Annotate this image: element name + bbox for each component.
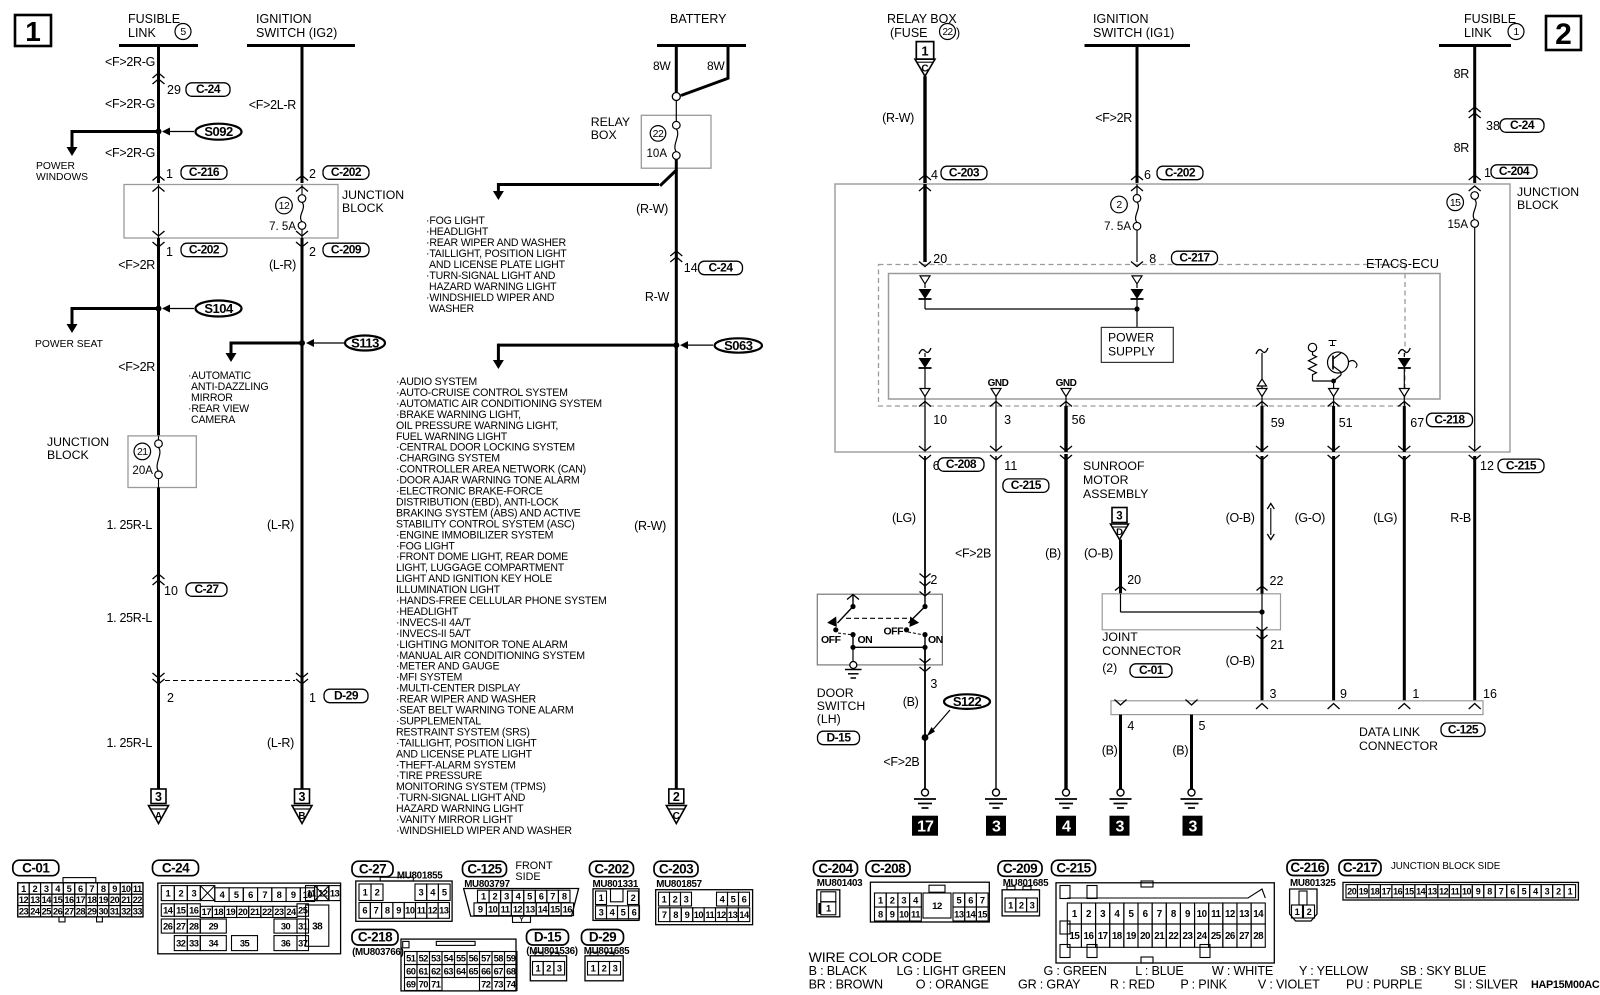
svg-text:11: 11 bbox=[417, 906, 426, 916]
svg-text:<F>2L-R: <F>2L-R bbox=[249, 98, 297, 112]
svg-text:1: 1 bbox=[166, 245, 173, 259]
junction block box (lower) bbox=[128, 436, 196, 488]
svg-text:22: 22 bbox=[1168, 931, 1179, 942]
svg-text:12: 12 bbox=[1439, 886, 1449, 896]
svg-text:POWER SEAT: POWER SEAT bbox=[35, 339, 104, 350]
svg-text:31: 31 bbox=[110, 907, 120, 917]
connector C-217 header bbox=[1339, 860, 1381, 876]
svg-text:17: 17 bbox=[76, 895, 86, 905]
wire IG1 vertical bbox=[1136, 46, 1139, 184]
svg-text:33: 33 bbox=[189, 938, 199, 948]
svg-text:26: 26 bbox=[53, 907, 63, 917]
connector C-202 pin grid bbox=[593, 889, 639, 921]
svg-text:4: 4 bbox=[1062, 819, 1071, 836]
svg-text:MOTOR: MOTOR bbox=[1083, 473, 1129, 487]
svg-text:62: 62 bbox=[431, 966, 441, 976]
svg-text:19: 19 bbox=[1126, 931, 1137, 942]
svg-text:1. 25R-L: 1. 25R-L bbox=[106, 736, 152, 750]
door switch common bus bbox=[852, 635, 854, 648]
svg-text:<F>2R-G: <F>2R-G bbox=[105, 146, 155, 160]
svg-text:2: 2 bbox=[167, 691, 174, 705]
wire fusible junction entry chevrons bbox=[1469, 175, 1481, 180]
svg-text:GND: GND bbox=[1056, 378, 1077, 389]
wire pin67 to block edge bbox=[1403, 406, 1406, 452]
svg-text:SB : SKY BLUE: SB : SKY BLUE bbox=[1400, 964, 1486, 978]
svg-text:C-215: C-215 bbox=[1056, 860, 1091, 875]
svg-text:1: 1 bbox=[826, 904, 831, 914]
svg-text:SI : SILVER: SI : SILVER bbox=[1454, 978, 1518, 992]
svg-text:1: 1 bbox=[481, 892, 486, 902]
svg-text:WASHER: WASHER bbox=[429, 303, 474, 315]
data link entry chevron 3 bbox=[1256, 704, 1268, 710]
svg-text:11: 11 bbox=[307, 888, 316, 898]
svg-text:SUPPLY: SUPPLY bbox=[1108, 345, 1155, 359]
svg-text:C-01: C-01 bbox=[22, 860, 50, 875]
svg-text:MU801685: MU801685 bbox=[1003, 878, 1049, 889]
svg-text:(LH): (LH) bbox=[817, 712, 841, 726]
svg-text:DATA LINK: DATA LINK bbox=[1359, 725, 1421, 739]
door switch left OFF contact bbox=[833, 627, 838, 632]
svg-text:11: 11 bbox=[1451, 886, 1460, 896]
connector C-24 pin grid bbox=[158, 883, 341, 954]
svg-text:ON: ON bbox=[858, 634, 873, 646]
svg-text:15: 15 bbox=[1450, 197, 1461, 209]
svg-text:(R-W): (R-W) bbox=[636, 202, 668, 216]
power supply node bbox=[1134, 306, 1139, 311]
svg-text:LG : LIGHT GREEN: LG : LIGHT GREEN bbox=[897, 964, 1006, 978]
svg-text:5: 5 bbox=[1199, 719, 1206, 733]
connector C-208 header bbox=[866, 861, 910, 877]
connector C-125 header bbox=[463, 861, 507, 877]
svg-text:3: 3 bbox=[44, 884, 49, 894]
svg-text:C-216: C-216 bbox=[1290, 860, 1325, 875]
page number box 2 bbox=[1546, 16, 1581, 50]
svg-text:22: 22 bbox=[942, 27, 953, 38]
wire 11 C-215 vertical bbox=[995, 456, 997, 789]
arrow S092 to node bbox=[168, 131, 194, 133]
svg-text:8: 8 bbox=[1487, 886, 1492, 896]
svg-text:28: 28 bbox=[1253, 931, 1264, 942]
svg-text:21: 21 bbox=[137, 446, 148, 458]
svg-text:5: 5 bbox=[180, 26, 186, 38]
svg-text:B : BLACK: B : BLACK bbox=[809, 964, 868, 978]
svg-text:15: 15 bbox=[550, 905, 560, 915]
svg-text:C-27: C-27 bbox=[359, 861, 386, 876]
door switch left pivot bbox=[850, 604, 855, 609]
svg-text:12: 12 bbox=[279, 200, 290, 212]
connector C-209 header bbox=[998, 861, 1042, 877]
page symbol 1-C bbox=[916, 42, 933, 60]
svg-text:18: 18 bbox=[1370, 886, 1380, 896]
svg-text:BR : BROWN: BR : BROWN bbox=[809, 978, 883, 992]
connector C-203 oval ref bbox=[941, 166, 987, 180]
page arrow 3-A bbox=[151, 789, 166, 804]
svg-text:C-202: C-202 bbox=[189, 243, 220, 257]
wire A junction block exit chevrons bbox=[153, 231, 165, 236]
svg-text:13: 13 bbox=[728, 910, 738, 920]
svg-text:2: 2 bbox=[1556, 886, 1561, 896]
svg-text:14: 14 bbox=[1253, 909, 1264, 920]
svg-text:8: 8 bbox=[562, 892, 567, 902]
svg-text:15: 15 bbox=[176, 905, 186, 915]
svg-text:(LG): (LG) bbox=[892, 511, 916, 525]
svg-text:8: 8 bbox=[277, 890, 282, 900]
svg-text:16: 16 bbox=[189, 905, 199, 915]
svg-text:(B): (B) bbox=[1102, 744, 1118, 758]
svg-text:2: 2 bbox=[309, 167, 316, 181]
svg-text:5: 5 bbox=[442, 888, 447, 898]
svg-text:23: 23 bbox=[1183, 931, 1194, 942]
wire B vertical lower bbox=[301, 238, 304, 789]
svg-text:D: D bbox=[1116, 527, 1123, 538]
svg-text:JUNCTION: JUNCTION bbox=[1517, 185, 1579, 199]
ETACS dashed boundary box bbox=[879, 265, 1406, 407]
svg-text:10: 10 bbox=[1462, 886, 1472, 896]
wire pin56 to block edge bbox=[1064, 406, 1067, 452]
svg-text:11: 11 bbox=[705, 910, 714, 920]
svg-text:9: 9 bbox=[396, 906, 401, 916]
joint connector internal wire bbox=[1120, 594, 1122, 612]
splice S063 oval bbox=[715, 338, 762, 352]
svg-text:9: 9 bbox=[890, 909, 895, 919]
door switch left dashed throw bbox=[838, 633, 851, 635]
svg-text:21: 21 bbox=[121, 895, 131, 905]
connector C-209 oval ref bbox=[323, 243, 369, 257]
svg-text:7: 7 bbox=[262, 890, 267, 900]
svg-text:5: 5 bbox=[1522, 886, 1527, 896]
ground terminal 3 (pin4) bbox=[1110, 816, 1130, 836]
svg-text:15A: 15A bbox=[1448, 219, 1469, 231]
svg-text:30: 30 bbox=[281, 921, 291, 931]
connector C-125 pin grid bbox=[464, 889, 579, 917]
svg-text:3: 3 bbox=[1116, 511, 1122, 523]
svg-text:3: 3 bbox=[1270, 687, 1277, 701]
svg-text:C-24: C-24 bbox=[196, 82, 221, 96]
svg-text:12: 12 bbox=[717, 910, 727, 920]
connector C-216 header bbox=[1287, 860, 1328, 876]
svg-text:O : ORANGE: O : ORANGE bbox=[916, 978, 989, 992]
power supply box bbox=[1101, 327, 1173, 362]
inline connector chevrons C-24 right bbox=[1469, 107, 1481, 112]
svg-text:C-202: C-202 bbox=[594, 861, 628, 876]
svg-text:3: 3 bbox=[1030, 900, 1035, 910]
ground terminal 4 (56 wire) bbox=[1056, 816, 1076, 836]
svg-text:59: 59 bbox=[506, 953, 516, 963]
svg-text:1: 1 bbox=[309, 691, 316, 705]
svg-text:3: 3 bbox=[504, 892, 509, 902]
svg-text:20: 20 bbox=[238, 907, 248, 917]
svg-text:1: 1 bbox=[1412, 687, 1419, 701]
svg-text:6: 6 bbox=[968, 895, 973, 905]
connector D-29 header bbox=[582, 930, 624, 946]
svg-text:69: 69 bbox=[406, 979, 416, 989]
connector C-24 oval ref bbox=[186, 83, 230, 97]
svg-text:3: 3 bbox=[599, 908, 604, 918]
svg-text:B: B bbox=[298, 811, 305, 822]
svg-text:22: 22 bbox=[1270, 574, 1284, 588]
battery terminal circle bbox=[672, 93, 680, 101]
door switch box bbox=[817, 594, 942, 665]
wire 21 to data link bbox=[1261, 630, 1264, 701]
arrow S104 to node bbox=[168, 308, 194, 310]
svg-text:16: 16 bbox=[1084, 931, 1095, 942]
svg-text:OFF: OFF bbox=[884, 626, 905, 638]
svg-text:15: 15 bbox=[53, 895, 63, 905]
wire pin3 to block edge bbox=[995, 406, 997, 451]
svg-text:2: 2 bbox=[1555, 18, 1572, 51]
svg-text:2: 2 bbox=[1307, 907, 1312, 917]
svg-text:11: 11 bbox=[501, 905, 510, 915]
joint connector exit chevron 21 bbox=[1257, 627, 1268, 632]
svg-text:11: 11 bbox=[1004, 459, 1017, 473]
connector C-217 pin grid bbox=[1343, 882, 1578, 900]
svg-text:4: 4 bbox=[1127, 719, 1134, 733]
diode D1 (R-W feed) bbox=[924, 284, 926, 288]
fuse 22 symbol bbox=[673, 121, 681, 129]
svg-text:15: 15 bbox=[1405, 886, 1415, 896]
svg-text:17: 17 bbox=[1382, 886, 1392, 896]
svg-text:(B): (B) bbox=[1045, 547, 1061, 561]
svg-text:13: 13 bbox=[525, 905, 535, 915]
svg-text:55: 55 bbox=[456, 953, 466, 963]
wire R-W inside block bbox=[923, 184, 926, 262]
svg-text:1: 1 bbox=[921, 44, 928, 59]
svg-text:ETACS-ECU: ETACS-ECU bbox=[1366, 256, 1439, 271]
svg-text:13: 13 bbox=[954, 909, 964, 919]
svg-text:6: 6 bbox=[742, 894, 747, 904]
fuse 15 in junction block bbox=[1447, 194, 1464, 211]
connector C-125 oval ref bbox=[1441, 723, 1485, 737]
internal input branch (pin59) bbox=[1256, 348, 1268, 354]
svg-text:JUNCTION: JUNCTION bbox=[342, 188, 404, 202]
wire 59 to joint connector bbox=[1261, 456, 1264, 594]
svg-text:29: 29 bbox=[87, 907, 97, 917]
svg-text:25: 25 bbox=[42, 907, 52, 917]
svg-text:12: 12 bbox=[19, 895, 29, 905]
connector C-218 header bbox=[352, 930, 398, 946]
svg-text:(G-O): (G-O) bbox=[1295, 511, 1326, 525]
connector C-24 oval ref (right) bbox=[1500, 119, 1544, 133]
svg-text:12: 12 bbox=[428, 906, 438, 916]
wire 6 C-208 vertical bbox=[924, 456, 926, 594]
wire 2 into door switch bbox=[920, 574, 931, 579]
svg-text:3: 3 bbox=[191, 888, 196, 898]
svg-text:3: 3 bbox=[299, 790, 306, 804]
svg-text:10: 10 bbox=[899, 909, 909, 919]
svg-text:21: 21 bbox=[1154, 931, 1165, 942]
svg-text:29: 29 bbox=[209, 921, 219, 931]
svg-text:3: 3 bbox=[992, 819, 1001, 836]
svg-text:6: 6 bbox=[248, 890, 253, 900]
wire 51 to data link bbox=[1332, 456, 1335, 701]
svg-text:17: 17 bbox=[917, 819, 934, 836]
connector C-203 pin grid bbox=[656, 890, 753, 925]
connector C-27 oval ref bbox=[186, 583, 227, 597]
wire A junction block entry chevrons bbox=[153, 176, 165, 181]
svg-text:20A: 20A bbox=[132, 465, 153, 477]
svg-text:74: 74 bbox=[506, 979, 517, 989]
svg-text:3: 3 bbox=[1116, 819, 1125, 836]
svg-text:C-218: C-218 bbox=[1434, 413, 1465, 427]
battery wire right drop bbox=[727, 44, 730, 79]
svg-text:C-204: C-204 bbox=[1499, 164, 1530, 178]
svg-text:20: 20 bbox=[1140, 931, 1151, 942]
svg-text:57: 57 bbox=[481, 953, 491, 963]
svg-text:12: 12 bbox=[1480, 459, 1494, 473]
updown arrow symbol bbox=[1270, 508, 1272, 535]
pin 59 exit bbox=[1261, 397, 1263, 407]
svg-text:15: 15 bbox=[978, 909, 988, 919]
svg-text:P : PINK: P : PINK bbox=[1180, 978, 1227, 992]
svg-text:7: 7 bbox=[550, 892, 555, 902]
junction block box (upper) bbox=[124, 185, 338, 239]
svg-text:27: 27 bbox=[64, 907, 74, 917]
svg-text:20: 20 bbox=[933, 252, 947, 266]
splice S063 node bbox=[673, 342, 679, 348]
svg-text:(L-R): (L-R) bbox=[267, 518, 294, 532]
svg-text:3: 3 bbox=[684, 894, 689, 904]
connector C-204 oval ref bbox=[1491, 165, 1537, 179]
svg-text:7. 5A: 7. 5A bbox=[1104, 221, 1131, 233]
fuse 2 circled IG1 bbox=[1111, 196, 1128, 213]
battery wire left drop bbox=[675, 46, 678, 93]
data link entry chevron 9 bbox=[1328, 704, 1340, 710]
svg-text:17: 17 bbox=[1098, 931, 1109, 942]
svg-text:12: 12 bbox=[513, 905, 523, 915]
svg-text:(FUSE: (FUSE bbox=[890, 26, 928, 40]
svg-text:IGNITION: IGNITION bbox=[1093, 12, 1149, 26]
wire sunroof to joint connector bbox=[1119, 540, 1122, 595]
ground pin5 bbox=[1188, 789, 1195, 796]
svg-text:67: 67 bbox=[494, 966, 504, 976]
svg-text:C-125: C-125 bbox=[467, 861, 502, 876]
svg-text:3: 3 bbox=[1545, 886, 1550, 896]
wire B thin segments in block bbox=[301, 185, 303, 195]
pin 20 entry chevron bbox=[919, 262, 931, 267]
svg-text:14: 14 bbox=[684, 261, 698, 275]
fuse 22 circled bbox=[650, 126, 666, 142]
svg-text:2: 2 bbox=[673, 894, 678, 904]
svg-text:2: 2 bbox=[930, 573, 937, 587]
svg-text:19: 19 bbox=[226, 907, 236, 917]
transistor emitter node bbox=[1331, 379, 1336, 384]
svg-text:21: 21 bbox=[1270, 638, 1284, 652]
relay box (battery) bbox=[641, 115, 711, 168]
splice S122 oval bbox=[944, 694, 990, 709]
page arrow 2-C bbox=[669, 789, 684, 804]
branch to fog light list bbox=[498, 183, 659, 186]
door switch entry chevron bbox=[920, 592, 931, 597]
svg-text:C-01: C-01 bbox=[1139, 663, 1164, 677]
branch to systems list bbox=[498, 344, 676, 347]
svg-text:GR : GRAY: GR : GRAY bbox=[1018, 978, 1081, 992]
svg-text:38: 38 bbox=[312, 921, 323, 932]
svg-text:BLOCK: BLOCK bbox=[47, 448, 89, 462]
svg-text:D-15: D-15 bbox=[826, 731, 851, 745]
svg-text:SWITCH (IG2): SWITCH (IG2) bbox=[256, 26, 337, 40]
svg-text:(B): (B) bbox=[903, 695, 919, 709]
svg-text:9: 9 bbox=[1476, 886, 1481, 896]
svg-text:DOOR: DOOR bbox=[817, 686, 854, 700]
door switch left arm bbox=[838, 607, 854, 624]
junction block outer box (right page) bbox=[835, 184, 1510, 452]
wire fusible-link vertical upper bbox=[157, 46, 160, 184]
data link exit chevron 5 bbox=[1186, 700, 1198, 706]
svg-text:20: 20 bbox=[1347, 886, 1357, 896]
svg-text:C: C bbox=[673, 811, 680, 822]
pin 10 exit bbox=[924, 397, 926, 407]
connector C-01 pin grid bbox=[18, 883, 143, 917]
svg-text:C-203: C-203 bbox=[949, 166, 980, 180]
ground terminal 17 bbox=[912, 816, 938, 836]
svg-text:58: 58 bbox=[494, 953, 504, 963]
svg-text:29: 29 bbox=[167, 83, 181, 97]
wire pin5 to ground bbox=[1190, 715, 1193, 789]
branch wire to POWER WINDOWS bbox=[72, 130, 159, 133]
svg-text:1: 1 bbox=[878, 895, 883, 905]
svg-text:7: 7 bbox=[980, 895, 985, 905]
svg-text:11: 11 bbox=[133, 884, 142, 894]
svg-text:9: 9 bbox=[291, 890, 296, 900]
svg-text:2: 2 bbox=[33, 884, 38, 894]
svg-text:6: 6 bbox=[632, 908, 637, 918]
svg-text:68: 68 bbox=[506, 966, 516, 976]
door switch left pole arrow bbox=[847, 595, 859, 600]
wire B vertical upper bbox=[301, 46, 304, 184]
svg-text:14: 14 bbox=[1416, 886, 1426, 896]
svg-text:C-24: C-24 bbox=[1510, 118, 1535, 132]
svg-text:26: 26 bbox=[163, 921, 173, 931]
svg-text:POWER: POWER bbox=[36, 161, 75, 172]
splice S092 node bbox=[156, 129, 162, 135]
svg-text:12: 12 bbox=[932, 901, 942, 912]
svg-text:C-208: C-208 bbox=[871, 861, 906, 876]
svg-text:10: 10 bbox=[1197, 909, 1208, 920]
connector C-24 header bbox=[153, 860, 199, 876]
door switch right ON contact bbox=[922, 632, 927, 637]
svg-text:24: 24 bbox=[30, 907, 41, 917]
wire R-W from relay box bbox=[923, 76, 926, 183]
wire A thin through junction block bbox=[158, 185, 160, 239]
svg-text:65: 65 bbox=[469, 966, 479, 976]
pin 3 exit bbox=[995, 397, 997, 407]
svg-text:S092: S092 bbox=[204, 124, 233, 139]
svg-text:13: 13 bbox=[1239, 909, 1250, 920]
svg-text:6: 6 bbox=[539, 892, 544, 902]
wire fusible thin inside block bbox=[1474, 227, 1476, 451]
splice S113 oval bbox=[345, 336, 385, 351]
svg-text:8R: 8R bbox=[1454, 141, 1470, 155]
svg-text:C-202: C-202 bbox=[331, 165, 362, 179]
svg-text:25: 25 bbox=[1211, 931, 1222, 942]
svg-text:2: 2 bbox=[890, 895, 895, 905]
svg-text:JOINT: JOINT bbox=[1102, 630, 1138, 644]
wire to power supply bbox=[1136, 309, 1138, 327]
svg-text:3: 3 bbox=[930, 677, 937, 691]
svg-text:8: 8 bbox=[101, 884, 106, 894]
branch wire to POWER SEAT bbox=[72, 307, 159, 310]
svg-text:D-15: D-15 bbox=[534, 930, 562, 945]
branch wire to mirror list bbox=[231, 342, 302, 345]
ground 11 wire bbox=[993, 789, 1000, 796]
svg-text:S122: S122 bbox=[953, 694, 982, 709]
svg-text:14: 14 bbox=[739, 910, 750, 920]
connector C-218 pin grid bbox=[401, 939, 516, 991]
splice S122 node bbox=[922, 734, 929, 741]
svg-text:3: 3 bbox=[557, 964, 562, 974]
svg-text:G : GREEN: G : GREEN bbox=[1044, 964, 1107, 978]
svg-text:13: 13 bbox=[30, 895, 40, 905]
